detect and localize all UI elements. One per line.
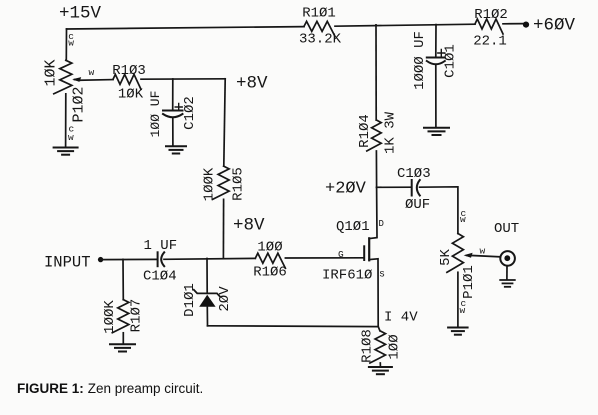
wire D101 bottom lead bbox=[206, 307, 208, 326]
capacitor C104 bbox=[157, 252, 159, 266]
potentiometer P101 body bbox=[447, 234, 464, 273]
svg-text:+8V: +8V bbox=[236, 74, 268, 94]
svg-text:R1Ø4: R1Ø4 bbox=[357, 114, 373, 148]
wire C104 to R106 bbox=[164, 257, 255, 260]
svg-text:R1Ø8: R1Ø8 bbox=[360, 329, 376, 363]
svg-text:1ØØ: 1ØØ bbox=[257, 240, 282, 256]
resistor R106 bbox=[255, 253, 285, 268]
wire source lead bbox=[369, 259, 378, 327]
ground R108 bbox=[369, 366, 392, 368]
output jack center pin bbox=[504, 255, 510, 261]
wire R107 to ground bbox=[122, 333, 124, 344]
svg-text:s: s bbox=[379, 270, 385, 281]
resistor R104 bbox=[367, 120, 381, 151]
svg-text:R1Ø7: R1Ø7 bbox=[129, 299, 145, 333]
resistor R101 bbox=[304, 21, 335, 36]
wire R107 top lead bbox=[122, 259, 124, 299]
svg-text:w: w bbox=[68, 132, 74, 143]
resistor R108 bbox=[370, 327, 386, 363]
svg-text:R1Ø6: R1Ø6 bbox=[253, 265, 287, 281]
wire C101 bottom lead bbox=[435, 66, 437, 127]
svg-text:22.1: 22.1 bbox=[473, 34, 507, 50]
svg-text:R1Ø2: R1Ø2 bbox=[474, 7, 508, 23]
svg-text:1 UF: 1 UF bbox=[144, 238, 178, 254]
svg-text:R1Ø3: R1Ø3 bbox=[112, 63, 146, 79]
ground C102 bbox=[166, 145, 186, 147]
svg-text:+2ØV: +2ØV bbox=[325, 180, 367, 199]
svg-text:1ØØØ UF: 1ØØØ UF bbox=[412, 31, 428, 90]
svg-text:+6ØV: +6ØV bbox=[533, 16, 576, 36]
svg-text:ØUF: ØUF bbox=[405, 197, 430, 213]
svg-text:1ØØ: 1ØØ bbox=[387, 334, 403, 359]
resistor R105 bbox=[213, 166, 230, 199]
svg-text:IRF61Ø: IRF61Ø bbox=[322, 268, 372, 284]
capacitor C101 bbox=[427, 57, 445, 59]
svg-text:P1Ø1: P1Ø1 bbox=[461, 265, 477, 299]
wire C103 to P101 corner bbox=[420, 187, 458, 234]
transistor Q101 channel plate bbox=[368, 238, 370, 260]
svg-text:D: D bbox=[379, 219, 384, 229]
svg-text:w: w bbox=[460, 214, 466, 225]
svg-text:P1Ø2: P1Ø2 bbox=[70, 86, 87, 122]
svg-text:w: w bbox=[460, 305, 466, 316]
ground C101 bbox=[424, 127, 449, 129]
svg-text:R1Ø1: R1Ø1 bbox=[302, 6, 336, 22]
svg-text:Q1Ø1: Q1Ø1 bbox=[336, 219, 370, 235]
wire top rail right segment bbox=[335, 24, 475, 26]
svg-text:1ØK: 1ØK bbox=[42, 59, 59, 86]
svg-text:D1Ø1: D1Ø1 bbox=[182, 283, 198, 317]
svg-text:1K 3W: 1K 3W bbox=[383, 111, 399, 154]
svg-text:R1Ø5: R1Ø5 bbox=[231, 167, 247, 201]
resistor R103 bbox=[113, 74, 141, 89]
svg-text:C1Ø1: C1Ø1 bbox=[443, 44, 459, 78]
label + (C101 polarity) bbox=[438, 50, 445, 57]
svg-text:C1Ø2: C1Ø2 bbox=[182, 96, 198, 130]
potentiometer P102 body bbox=[54, 60, 72, 93]
potentiometer P102 wiper arrow bbox=[75, 79, 81, 82]
transistor Q101 gate plate bbox=[363, 246, 365, 260]
svg-text:1ØK: 1ØK bbox=[118, 87, 144, 103]
ground P102 bbox=[54, 147, 78, 149]
svg-text:OUT: OUT bbox=[494, 221, 519, 237]
svg-text:w: w bbox=[68, 38, 74, 49]
wire P101 wiper to OUT bbox=[470, 255, 500, 256]
wire +8V corner down to R105 bbox=[224, 79, 225, 166]
wire R104 top lead bbox=[375, 25, 377, 120]
wire input to C104 bbox=[101, 258, 157, 260]
wire R108 to ground bbox=[379, 363, 381, 366]
node +60V junction dot bbox=[523, 22, 529, 28]
ground P101 bbox=[448, 327, 468, 329]
wire R104 to +20V node bbox=[375, 151, 377, 187]
label + (C102 polarity) bbox=[175, 104, 182, 111]
svg-text:FIGURE 1:Zen preamp circuit.: FIGURE 1:Zen preamp circuit. bbox=[17, 381, 203, 396]
capacitor C102 bbox=[163, 110, 183, 112]
svg-text:1ØØK: 1ØØK bbox=[202, 167, 218, 201]
wire +15V top rail left segment bbox=[67, 27, 305, 29]
ground OUT jack bbox=[500, 279, 515, 281]
svg-text:C1Ø4: C1Ø4 bbox=[143, 269, 177, 285]
wire P102 bottom lead bbox=[65, 94, 67, 147]
svg-text:INPUT: INPUT bbox=[44, 254, 91, 272]
svg-text:5K: 5K bbox=[438, 249, 454, 266]
svg-text:+8V: +8V bbox=[233, 216, 265, 236]
svg-text:1ØØK: 1ØØK bbox=[102, 300, 118, 334]
wire R106 to gate bbox=[285, 257, 363, 259]
svg-text:+15V: +15V bbox=[59, 4, 102, 24]
wire P102 top lead bbox=[65, 29, 67, 60]
zener diode D101 bbox=[194, 290, 220, 297]
output jack outer circle bbox=[500, 251, 515, 266]
svg-text:I 4V: I 4V bbox=[384, 310, 418, 326]
ground R107 bbox=[110, 343, 135, 345]
svg-text:w: w bbox=[480, 246, 486, 257]
svg-text:33.2K: 33.2K bbox=[299, 32, 342, 48]
wire R103 to corner bbox=[141, 78, 225, 80]
wire R105 to input rail bbox=[222, 199, 224, 258]
svg-text:G: G bbox=[338, 249, 344, 260]
svg-text:1ØØ UF: 1ØØ UF bbox=[148, 91, 163, 138]
wire drain lead bbox=[369, 187, 377, 238]
node input dot bbox=[98, 257, 103, 262]
wire jack to ground bbox=[506, 266, 508, 279]
resistor R102 bbox=[475, 19, 503, 34]
wire P101 bottom lead bbox=[457, 272, 459, 326]
svg-text:2ØV: 2ØV bbox=[217, 286, 233, 312]
svg-text:w: w bbox=[89, 67, 95, 78]
wire D101 top lead bbox=[206, 259, 208, 294]
wire P102 wiper to R103 bbox=[80, 79, 113, 82]
wire C102 bottom lead bbox=[172, 119, 174, 146]
capacitor C103 bbox=[411, 180, 413, 196]
wire C102 top lead bbox=[172, 79, 174, 110]
wire C101 top lead bbox=[435, 25, 437, 57]
svg-text:C1Ø3: C1Ø3 bbox=[397, 166, 431, 182]
wire source return (D101 to R108 node) bbox=[208, 325, 379, 328]
resistor R107 bbox=[112, 300, 129, 333]
wire R102 to +60V dot bbox=[503, 23, 524, 25]
wire +20V node to C103 bbox=[377, 186, 411, 188]
potentiometer P101 wiper arrow bbox=[467, 254, 470, 256]
